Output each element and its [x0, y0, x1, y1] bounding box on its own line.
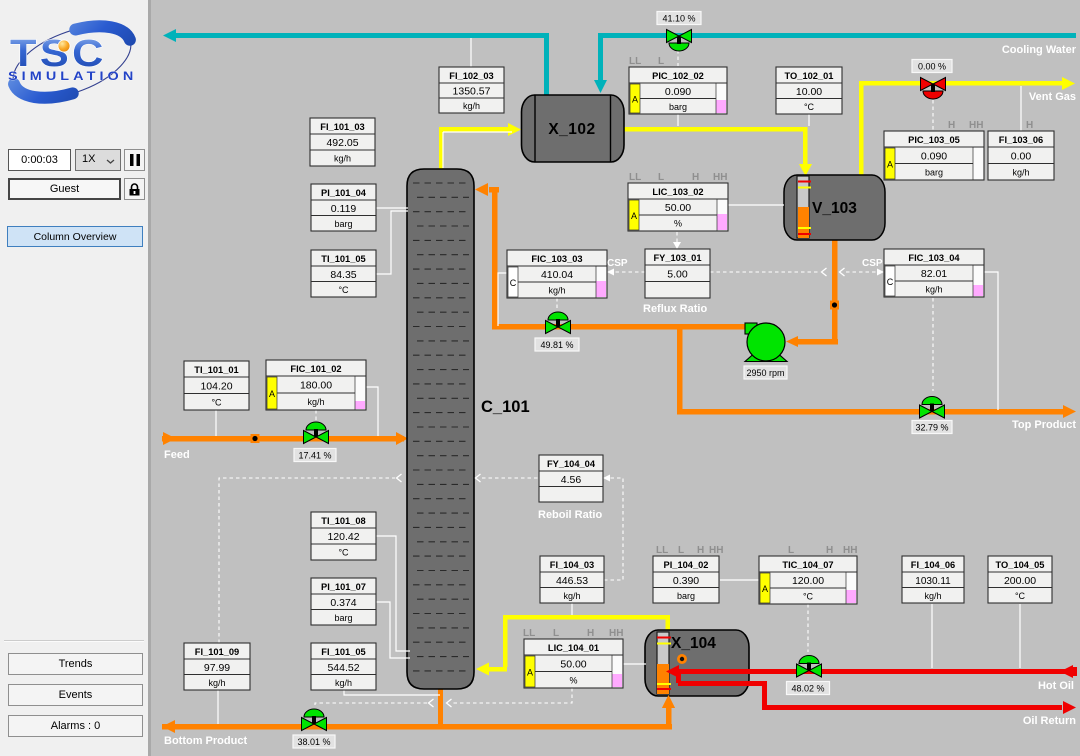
svg-text:0.090: 0.090 [665, 86, 691, 98]
logo TSC Simulation [0, 20, 148, 150]
svg-text:kg/h: kg/h [463, 101, 480, 111]
svg-text:V_103: V_103 [812, 200, 857, 217]
instrument FY_104_04 [539, 455, 603, 502]
svg-text:410.04: 410.04 [541, 269, 573, 281]
instrument TI_101_01 [184, 361, 249, 410]
svg-text:FIC_103_03: FIC_103_03 [531, 254, 582, 264]
signal FIC_101_02 to feed valve [315, 410, 317, 420]
instrument FIC_103_03 [507, 250, 607, 298]
wire TO_104_05 tap [1019, 604, 1021, 668]
svg-text:A: A [631, 211, 637, 221]
signal FI_101_09 to FY_104_04 [219, 474, 539, 643]
vessel C_101 distillation column [407, 169, 474, 689]
label 48.02 % [787, 682, 830, 695]
instrument FI_101_03 [310, 118, 375, 166]
svg-text:FI_101_05: FI_101_05 [321, 647, 365, 657]
wire column bottoms / bottom product (orange) [162, 687, 675, 733]
Trends button [8, 653, 143, 675]
svg-text:PI_104_02: PI_104_02 [664, 560, 709, 570]
valve hot oil TV [797, 656, 822, 678]
wire FI_104_03 tap [571, 603, 573, 615]
svg-text:°C: °C [338, 285, 349, 295]
svg-text:kg/h: kg/h [335, 678, 352, 688]
wire TI_101_05 tap [376, 211, 408, 274]
svg-text:Hot Oil: Hot Oil [1038, 680, 1074, 692]
junction feed line [251, 434, 260, 443]
signal TIC_104_07 to hot oil valve [807, 604, 809, 652]
svg-text:X_104: X_104 [671, 635, 716, 652]
svg-text:10.00: 10.00 [796, 86, 822, 98]
wire top product line (orange) [677, 326, 1076, 418]
instrument PI_101_07 [311, 578, 376, 625]
svg-text:FI_104_03: FI_104_03 [550, 560, 594, 570]
time display [8, 149, 71, 171]
valve cooling water PV [667, 30, 692, 52]
speed dropdown 1X [75, 149, 121, 171]
svg-text:C_101: C_101 [481, 398, 530, 416]
svg-text:446.53: 446.53 [556, 575, 588, 587]
svg-text:°C: °C [804, 102, 815, 112]
instrument TI_101_08 [311, 512, 376, 560]
wire LIC_103_02 tap [728, 204, 784, 206]
svg-text:H: H [692, 172, 699, 183]
pump P_103 [745, 323, 787, 362]
instrument PI_101_04 [311, 184, 376, 231]
instrument PI_104_02 [653, 545, 723, 603]
svg-text:0.390: 0.390 [673, 575, 699, 587]
svg-text:A: A [269, 389, 275, 399]
wire hot oil supply (red) [666, 665, 1077, 683]
svg-text:0.119: 0.119 [331, 203, 357, 215]
Guest button [8, 178, 121, 200]
svg-text:2950 rpm: 2950 rpm [746, 368, 784, 378]
instrument FY_103_01 [645, 249, 710, 298]
instrument TO_104_05 [988, 556, 1052, 603]
svg-text:HH: HH [969, 120, 983, 131]
instrument FIC_103_04 [884, 249, 984, 297]
svg-text:32.79 %: 32.79 % [915, 423, 948, 433]
label pump speed [744, 366, 787, 379]
svg-text:84.35: 84.35 [330, 269, 356, 281]
instrument FI_102_03 [439, 67, 504, 113]
svg-text:48.02 %: 48.02 % [791, 684, 824, 694]
vessel X_102 condenser [522, 95, 625, 162]
Events button [8, 684, 143, 706]
wire PI_101_07 tap [376, 602, 410, 658]
wire TO_102_01 tap [808, 114, 810, 126]
svg-text:kg/h: kg/h [925, 285, 942, 295]
wire FIC_101_02 tap [366, 387, 378, 436]
svg-text:0.00 %: 0.00 % [918, 62, 946, 72]
svg-text:FI_101_03: FI_101_03 [320, 122, 364, 132]
svg-text:barg: barg [677, 591, 695, 601]
svg-text:4.56: 4.56 [561, 474, 582, 486]
svg-text:%: % [674, 219, 682, 229]
svg-text:%: % [569, 675, 577, 685]
valve top product FV [920, 397, 945, 419]
svg-text:kg/h: kg/h [924, 591, 941, 601]
svg-text:120.42: 120.42 [327, 531, 359, 543]
svg-text:barg: barg [334, 219, 352, 229]
svg-text:FIC_103_04: FIC_103_04 [908, 253, 960, 263]
svg-text:kg/h: kg/h [307, 397, 324, 407]
svg-text:barg: barg [669, 102, 687, 112]
wire feed line (orange) [162, 432, 408, 445]
svg-text:FY_103_01: FY_103_01 [653, 253, 701, 263]
svg-text:97.99: 97.99 [204, 662, 230, 674]
label 41.10 % [657, 12, 701, 25]
svg-text:Top Product: Top Product [1012, 419, 1076, 431]
label 38.01 % [293, 735, 335, 748]
svg-text:C: C [510, 278, 517, 288]
signal LIC_104_01 to bottom product valve [315, 688, 572, 707]
orange feed arrow into X_104 redrawn over vessel [662, 695, 675, 708]
svg-text:kg/h: kg/h [208, 678, 225, 688]
junction V_103 outlet [830, 301, 839, 310]
level gauge V_103 [797, 176, 811, 238]
svg-text:FI_104_06: FI_104_06 [911, 560, 955, 570]
wire reflux line (orange) pump to column top [475, 183, 745, 330]
svg-text:HH: HH [713, 172, 727, 183]
wire TI_101_08 tap [376, 536, 410, 651]
svg-text:CSP: CSP [862, 258, 883, 269]
svg-text:LL: LL [629, 172, 641, 183]
wire V_103 vent gas (yellow) to right edge [859, 77, 1075, 175]
svg-text:A: A [887, 160, 893, 170]
nozzle dot X_104 [677, 654, 687, 664]
valve feed FV [304, 422, 329, 444]
svg-text:TI_101_01: TI_101_01 [194, 365, 238, 375]
svg-text:TIC_104_07: TIC_104_07 [782, 560, 833, 570]
wire PIC_102_02 tap to column top [443, 114, 678, 168]
svg-text:TO_102_01: TO_102_01 [785, 71, 834, 81]
signal FY_103_01 to FIC_103_04 (CSP) [710, 268, 884, 276]
svg-text:1350.57: 1350.57 [453, 86, 491, 98]
label 32.79 % [912, 421, 952, 434]
svg-text:H: H [587, 628, 594, 639]
svg-text:A: A [762, 584, 768, 594]
svg-text:FI_102_03: FI_102_03 [449, 71, 493, 81]
vessel V_103 reflux drum [784, 175, 885, 240]
svg-text:FI_101_09: FI_101_09 [195, 647, 239, 657]
instrument FI_101_05 [311, 643, 376, 690]
label 17.41 % [294, 449, 336, 462]
svg-text:L: L [788, 545, 794, 556]
wire X_102 outlet (yellow) to V_103 [624, 127, 812, 176]
valve vent gas PV (red) [921, 78, 946, 100]
instrument FI_103_06 [988, 120, 1054, 180]
svg-text:LIC_103_02: LIC_103_02 [652, 187, 703, 197]
svg-text:49.81 %: 49.81 % [540, 340, 573, 350]
svg-text:LIC_104_01: LIC_104_01 [548, 643, 599, 653]
svg-text:kg/h: kg/h [334, 154, 351, 164]
wire FI_102_03 tap [470, 38, 472, 67]
instrument FI_104_03 [540, 556, 604, 603]
separator [4, 640, 144, 642]
svg-text:0.090: 0.090 [921, 150, 947, 162]
signal FIC_103_04 to top product valve [932, 298, 934, 391]
svg-text:1030.11: 1030.11 [915, 576, 951, 587]
svg-text:17.41 %: 17.41 % [298, 451, 331, 461]
svg-text:TI_101_08: TI_101_08 [321, 516, 365, 526]
valve bottom product LV [302, 709, 327, 731]
signal LIC_103_02 to FY_103_01 [673, 232, 681, 249]
instrument FI_101_09 [184, 643, 250, 690]
svg-text:barg: barg [925, 167, 943, 177]
label 49.81 % [535, 338, 579, 351]
svg-text:LL: LL [656, 545, 668, 556]
svg-text:FIC_101_02: FIC_101_02 [290, 364, 341, 374]
svg-text:0.374: 0.374 [330, 597, 356, 609]
svg-text:H: H [826, 545, 833, 556]
wire oil return (red) [678, 681, 1076, 714]
svg-text:82.01: 82.01 [921, 268, 947, 280]
wire column overhead vapor (yellow) to X_102 [439, 123, 521, 171]
Column Overview nav button [7, 226, 143, 247]
instrument PIC_103_05 [884, 120, 984, 180]
instrument FI_104_06 [902, 556, 964, 603]
wire cooling-water supply (teal, from right edge) [594, 33, 1076, 93]
svg-text:PI_101_04: PI_101_04 [321, 188, 367, 198]
svg-text:A: A [527, 668, 533, 678]
pause button [124, 149, 145, 171]
svg-text:38.01 %: 38.01 % [297, 737, 330, 747]
svg-text:41.10 %: 41.10 % [662, 14, 695, 24]
svg-text:Reboil Ratio: Reboil Ratio [538, 509, 602, 521]
wire PI_101_04 tap [376, 207, 408, 209]
svg-text:HH: HH [609, 628, 623, 639]
svg-text:°C: °C [1015, 591, 1026, 601]
svg-text:°C: °C [338, 548, 349, 558]
svg-text:°C: °C [211, 397, 222, 407]
svg-text:TI_101_05: TI_101_05 [321, 254, 365, 264]
instrument TI_101_05 [311, 250, 376, 297]
svg-text:CSP: CSP [607, 258, 628, 269]
svg-text:PI_101_07: PI_101_07 [321, 582, 366, 592]
signal FIC_103_03 to reflux valve [556, 298, 558, 308]
svg-text:50.00: 50.00 [665, 202, 691, 214]
wire reboiler vapor return (yellow) X_104 to column [476, 615, 670, 676]
svg-text:0.00: 0.00 [1011, 150, 1032, 162]
svg-text:LL: LL [523, 628, 535, 639]
svg-text:X_102: X_102 [548, 121, 595, 138]
signal FY_103_01 to FIC_103_03 (CSP) [607, 269, 645, 276]
svg-text:°C: °C [803, 592, 814, 602]
svg-text:L: L [658, 172, 664, 183]
svg-text:L: L [658, 56, 664, 67]
level gauge X_104 [657, 632, 671, 694]
svg-text:Oil Return: Oil Return [1023, 715, 1076, 727]
svg-text:Feed: Feed [164, 449, 190, 461]
svg-text:Vent Gas: Vent Gas [1029, 91, 1076, 103]
svg-text:180.00: 180.00 [300, 380, 332, 392]
instrument TIC_104_07 [759, 545, 857, 604]
wire FI_101_09 tap [217, 690, 219, 724]
svg-text:FI_103_06: FI_103_06 [999, 135, 1043, 145]
svg-text:PIC_103_05: PIC_103_05 [908, 135, 960, 145]
wire cooling-water return (teal, to left edge) [163, 29, 549, 95]
svg-text:L: L [553, 628, 559, 639]
svg-text:barg: barg [334, 613, 352, 623]
svg-text:Reflux Ratio: Reflux Ratio [643, 303, 707, 315]
svg-text:Cooling Water: Cooling Water [1002, 44, 1077, 56]
instrument LIC_104_01 [523, 628, 623, 688]
instrument TO_102_01 [776, 67, 842, 114]
svg-text:L: L [678, 545, 684, 556]
svg-text:C: C [887, 277, 894, 287]
wire V_103 outlet to pump (orange) [786, 240, 838, 347]
wire FIC_103_03 tap [498, 273, 507, 326]
svg-text:A: A [632, 95, 638, 105]
signal valve to PIC_102_02 [677, 50, 679, 66]
svg-text:5.00: 5.00 [667, 268, 688, 280]
svg-text:HH: HH [843, 545, 857, 556]
wire FI_101_05 tap [344, 690, 440, 695]
svg-text:200.00: 200.00 [1004, 575, 1036, 587]
signal valve to PIC_103_05 [932, 100, 934, 130]
instrument LIC_103_02 [628, 172, 728, 231]
vessel X_104 reboiler [645, 630, 749, 696]
wire TI_101_01 tap [215, 410, 217, 436]
svg-text:HH: HH [709, 545, 723, 556]
valve reflux FV [546, 312, 571, 334]
svg-text:104.20: 104.20 [200, 380, 232, 392]
svg-text:PIC_102_02: PIC_102_02 [652, 71, 704, 81]
wire FI_103_06 tap [1020, 86, 1022, 131]
svg-text:Bottom Product: Bottom Product [164, 735, 247, 747]
lock button [124, 178, 145, 200]
svg-text:H: H [948, 120, 955, 131]
instrument PIC_102_02 [629, 56, 727, 114]
svg-text:kg/h: kg/h [548, 286, 565, 296]
wire PI_104_02 / TIC_104_07 tap [720, 579, 759, 581]
svg-text:544.52: 544.52 [327, 662, 359, 674]
svg-text:492.05: 492.05 [326, 137, 358, 149]
svg-text:kg/h: kg/h [1012, 167, 1029, 177]
wire LIC_104_01 tap [623, 663, 646, 665]
instrument FIC_101_02 [266, 360, 366, 410]
svg-text:TO_104_05: TO_104_05 [996, 560, 1045, 570]
signal FI_104_03 to FY_104_04 [603, 475, 623, 581]
svg-text:FY_104_04: FY_104_04 [547, 459, 596, 469]
wire FI_104_06 tap [931, 604, 933, 668]
wire FIC_103_04 tap to top product line [984, 272, 998, 410]
svg-text:H: H [1026, 120, 1033, 131]
svg-text:120.00: 120.00 [792, 575, 824, 587]
Alarms button [8, 715, 143, 737]
label 0.00 % [912, 60, 952, 73]
svg-text:H: H [697, 545, 704, 556]
svg-text:50.00: 50.00 [560, 658, 586, 670]
svg-text:kg/h: kg/h [563, 591, 580, 601]
svg-text:LL: LL [629, 56, 641, 67]
